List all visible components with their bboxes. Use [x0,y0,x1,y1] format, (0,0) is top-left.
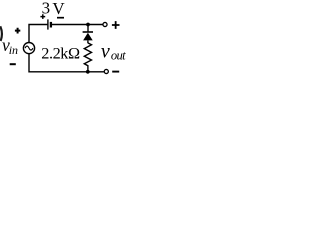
diode D1 cathode bar [83,31,93,33]
cropped paren fragment [0,26,2,41]
vin minus label [10,63,16,65]
battery minus label [57,17,64,19]
svg-text:2.2kΩ: 2.2kΩ [41,43,80,62]
node junction dot bottom [86,70,90,74]
wire bottom-left from source to bottom rail [29,54,104,72]
vin plus label [15,28,20,34]
diode D1 stem from top node [87,25,89,32]
svg-text:V: V [52,0,65,18]
sine symbol [25,46,33,50]
diode D1 triangle [83,33,93,41]
wire top from battery to output terminal [52,24,103,26]
node junction dot top [86,23,90,27]
source vin circle [23,43,34,54]
terminal bottom output [104,69,108,73]
svg-text:v: v [101,40,110,62]
battery V1 positive plate [47,19,49,29]
resistor R1 zigzag [84,43,91,72]
svg-text:out: out [111,49,126,63]
output plus label [112,21,120,29]
svg-text:3: 3 [42,0,51,17]
svg-text:in: in [9,43,18,57]
battery V1 negative plate [50,22,52,28]
wire diode to resistor [87,40,89,43]
terminal top output [103,22,107,26]
output minus label [112,71,119,73]
battery plus label [40,14,45,19]
wire top-left from source to battery [29,25,47,43]
